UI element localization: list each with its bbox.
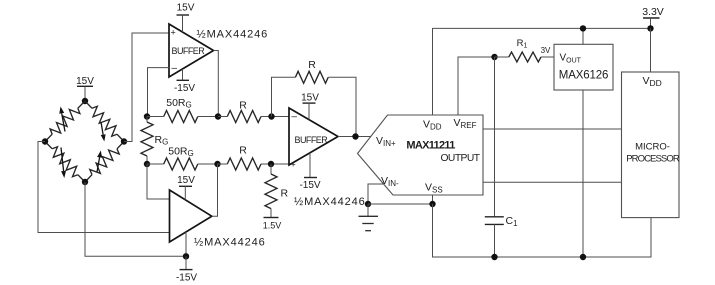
wire bridge bottom node to -15V rail bbox=[85, 182, 186, 256]
svg-text:R: R bbox=[281, 188, 289, 200]
wire 3.3V down to microprocessor bbox=[650, 28, 652, 72]
node A (RG top / 50RG / U1a fb) bbox=[144, 113, 150, 119]
op-amp U1a (top buffer, ½MAX44246) bbox=[169, 24, 214, 77]
op-amp U2a (output buffer, ½MAX44246) bbox=[289, 108, 338, 170]
resistor RG (gain resistor) bbox=[141, 117, 168, 165]
svg-text:R: R bbox=[239, 99, 247, 111]
microprocessor U5 bbox=[622, 72, 680, 218]
wire bridge left node to op-amp U1b + input bbox=[38, 142, 170, 233]
wire U1b output up to node E bbox=[212, 164, 218, 216]
node F (U2a non-inverting input / R to 1.5V) bbox=[268, 161, 274, 167]
resistor R to 1.5V reference bbox=[265, 164, 289, 218]
svg-text:MAX11211: MAX11211 bbox=[406, 140, 455, 152]
resistor bridge top-left (strain gauge) bbox=[45, 101, 85, 142]
svg-text:15V: 15V bbox=[76, 76, 94, 87]
resistor bridge bottom-right (strain gauge) bbox=[85, 142, 124, 183]
svg-text:-15V: -15V bbox=[176, 273, 197, 284]
wire U2a output to ADC VIN+ bbox=[338, 136, 371, 138]
svg-text:PROCESSOR: PROCESSOR bbox=[626, 153, 680, 164]
supply -15V (U1b / bridge) bbox=[176, 256, 197, 283]
resistor 50RG (bottom row) bbox=[147, 146, 218, 171]
svg-text:15V: 15V bbox=[177, 3, 195, 14]
node VSS bbox=[429, 201, 435, 207]
resistor bridge bottom-left (strain gauge) bbox=[45, 142, 85, 183]
svg-text:15V: 15V bbox=[301, 92, 319, 103]
supply 15V (U1a) bbox=[177, 3, 195, 33]
svg-text:R: R bbox=[239, 144, 247, 156]
resistor R1 bbox=[495, 38, 555, 62]
wire MAX6126 ground to rail bbox=[582, 90, 584, 257]
svg-text:-15V: -15V bbox=[299, 180, 320, 191]
svg-text:+: + bbox=[291, 160, 296, 170]
wire U1a inverting input feedback bbox=[148, 68, 170, 117]
supply -15V (U1a) bbox=[174, 69, 195, 94]
supply 15V (bridge excitation) bbox=[76, 76, 94, 101]
svg-text:VDD: VDD bbox=[643, 75, 662, 88]
resistor 50RG (top row) bbox=[147, 97, 218, 123]
wire ADC VIN- to ground node bbox=[368, 184, 384, 204]
ADC U3 MAX11211 bbox=[358, 115, 484, 195]
capacitor C1 bbox=[485, 57, 518, 257]
wire ADC output line 1 bbox=[483, 128, 622, 130]
svg-text:3V: 3V bbox=[541, 46, 551, 55]
svg-text:MICRO-: MICRO- bbox=[635, 142, 670, 153]
svg-text:15V: 15V bbox=[177, 175, 195, 186]
wire U1b to -15V node bbox=[185, 232, 188, 256]
svg-text:BUFFER: BUFFER bbox=[172, 46, 206, 56]
node 3.3V / microprocessor VDD bbox=[647, 25, 653, 31]
supply -15V (U2a) bbox=[299, 153, 320, 191]
node D (RG bottom / 50RG bottom / U1b fb) bbox=[144, 161, 150, 167]
wire ADC VREF riser bbox=[458, 57, 495, 115]
svg-text:OUTPUT: OUTPUT bbox=[440, 153, 480, 164]
svg-text:1.5V: 1.5V bbox=[263, 220, 282, 230]
op-amp U1b (bottom, ½MAX44246) bbox=[170, 190, 212, 242]
node bridge bottom bbox=[82, 179, 88, 185]
resistor bridge top-right (strain gauge) bbox=[85, 101, 124, 142]
svg-text:–: – bbox=[292, 111, 298, 122]
node E (U1b out / R bottom) bbox=[214, 161, 220, 167]
node ground rail / MAX6126 bbox=[580, 254, 586, 260]
svg-text:-15V: -15V bbox=[174, 83, 195, 94]
supply 1.5V bbox=[263, 218, 282, 231]
wire ADC VSS pin bbox=[432, 195, 434, 204]
svg-text:MAX6126: MAX6126 bbox=[559, 69, 608, 81]
node B (U1a out / R top) bbox=[215, 113, 221, 119]
resistor R (U2a feedback) bbox=[272, 59, 357, 136]
node U2a output / feedback bbox=[352, 133, 358, 139]
wire bridge right node to op-amp U1a + input bbox=[124, 33, 169, 142]
voltage reference U4 MAX6126 bbox=[554, 44, 613, 90]
wire U1a output down to node bbox=[214, 51, 219, 117]
resistor R (top row) bbox=[218, 99, 289, 122]
svg-text:½MAX44246: ½MAX44246 bbox=[194, 237, 266, 249]
node bridge right bbox=[121, 138, 127, 144]
node C (U2a inverting input) bbox=[268, 113, 274, 119]
supply 15V (U1b) bbox=[177, 175, 195, 200]
svg-text:–: – bbox=[172, 63, 178, 74]
node ground rail / C1 bbox=[491, 254, 497, 260]
svg-text:½MAX44246: ½MAX44246 bbox=[197, 29, 269, 41]
node VIN- / ground bbox=[365, 201, 371, 207]
svg-text:BUFFER: BUFFER bbox=[295, 135, 329, 145]
resistor R (bottom row) bbox=[218, 144, 290, 170]
wire ADC VDD riser to 3.3V rail bbox=[433, 28, 651, 115]
svg-text:+: + bbox=[171, 28, 176, 38]
svg-text:R: R bbox=[308, 59, 316, 71]
ground bbox=[359, 204, 379, 231]
wire node D down to U1b inverting input bbox=[147, 164, 170, 199]
node bridge left bbox=[42, 138, 48, 144]
supply 3.3V bbox=[642, 6, 664, 28]
node -15V junction bbox=[183, 253, 189, 259]
wire ADC output line 2 bbox=[483, 181, 622, 183]
wire bridge top node to 15V bbox=[82, 98, 88, 104]
wire VSS down to ground rail bbox=[433, 204, 652, 257]
wire ground line to VSS node bbox=[368, 203, 433, 205]
wire MAX6126 top to 3.3V rail bbox=[582, 28, 584, 44]
svg-text:½MAX44246: ½MAX44246 bbox=[294, 196, 366, 208]
node 3.3V rail / MAX6126 bbox=[580, 25, 586, 31]
supply 15V (U2a) bbox=[301, 92, 319, 119]
svg-text:3.3V: 3.3V bbox=[642, 6, 664, 18]
node VREF / R1 / C1 bbox=[491, 54, 497, 60]
